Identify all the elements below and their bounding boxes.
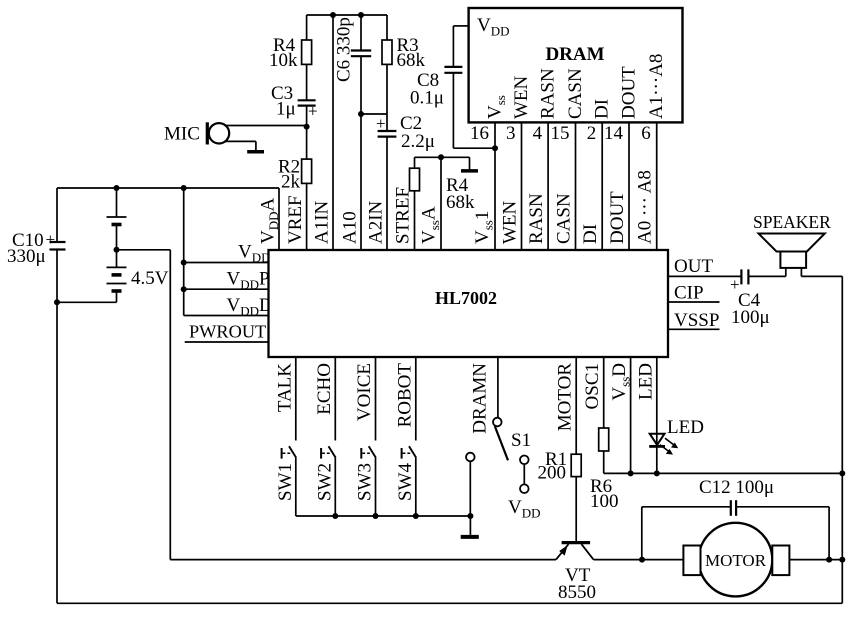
svg-text:SW4: SW4: [395, 463, 416, 502]
svg-text:A0 ··· A8: A0 ··· A8: [635, 170, 656, 244]
svg-text:CIP: CIP: [674, 283, 704, 304]
wire PWROUT pin: [185, 322, 269, 343]
wire A1IN pin: [312, 15, 334, 250]
wire switch common rail: [296, 515, 471, 517]
LED light arrows: [660, 438, 678, 454]
wire bottom rail: [57, 602, 842, 604]
junction MIC-VREF: [304, 124, 310, 130]
wire WEN net: [500, 122, 522, 250]
svg-text:SPEAKER: SPEAKER: [753, 212, 831, 232]
wire MIC to VREF: [226, 125, 307, 127]
capacitor C10: [7, 188, 66, 302]
switch SW2 on ECHO pin: [314, 357, 336, 516]
node VREF / resistor chain top wire: [307, 14, 387, 16]
resistor R3 68k: [382, 15, 426, 71]
svg-text:SW1: SW1: [275, 463, 296, 501]
junction collector-C12: [639, 557, 645, 563]
wire A10 label: [340, 211, 361, 244]
svg-text:+: +: [376, 114, 386, 133]
microphone MIC: [164, 122, 229, 144]
DRAM pin 6: [641, 54, 667, 144]
wire DOUT net: [607, 122, 629, 250]
svg-text:68k: 68k: [446, 192, 475, 213]
wire R6 rail: [604, 472, 843, 474]
svg-text:68k: 68k: [397, 50, 426, 71]
DRAM pin 4: [533, 68, 559, 144]
resistor R1 200: [538, 449, 582, 541]
switch SW1 on TALK pin: [274, 357, 296, 516]
junction VSSD rail: [628, 470, 634, 476]
svg-text:C6 330p: C6 330p: [334, 17, 355, 82]
ground stub near VSSA: [461, 157, 478, 171]
svg-text:C12 100μ: C12 100μ: [699, 477, 774, 498]
wire C4 to speaker: [748, 275, 785, 277]
resistor R2 2k: [278, 127, 312, 250]
svg-text:LED: LED: [636, 363, 657, 400]
svg-text:MOTOR: MOTOR: [555, 363, 576, 432]
svg-text:HL7002: HL7002: [435, 288, 497, 308]
wire collector to motor: [594, 559, 684, 561]
DRAM pin 3: [506, 75, 532, 144]
svg-text:16: 16: [470, 123, 489, 144]
wire OUT pin: [668, 256, 741, 277]
svg-text:SW2: SW2: [314, 463, 335, 501]
svg-text:STREF: STREF: [393, 187, 414, 244]
DRAM pin 14: [604, 66, 640, 144]
svg-text:RASN: RASN: [526, 193, 547, 244]
svg-text:OUT: OUT: [674, 256, 713, 277]
DRAM pin 15: [551, 68, 587, 144]
wire STREF-VSSA: [415, 156, 470, 158]
wire A2IN label: [366, 200, 387, 244]
svg-text:330μ: 330μ: [7, 246, 46, 267]
junction LED rail: [654, 470, 660, 476]
wire top-left VDD rail: [57, 187, 279, 189]
node test terminal: [466, 453, 475, 516]
svg-text:8550: 8550: [558, 582, 596, 603]
wire VDDA pin: [258, 188, 282, 250]
wire VSSD pin: [609, 357, 633, 473]
wire A0-A8 net: [635, 122, 657, 250]
switch SW4 on ROBOT pin: [394, 357, 416, 516]
capacitor C4 100u: [730, 269, 770, 328]
DRAM pin 2: [587, 99, 613, 144]
svg-text:RASN: RASN: [538, 68, 559, 119]
svg-text:DRAM: DRAM: [545, 44, 604, 65]
battery GB1 4.5V: [57, 188, 169, 302]
svg-text:MIC: MIC: [164, 124, 200, 145]
wire speaker to right rail: [801, 275, 842, 277]
svg-text:0.1μ: 0.1μ: [410, 88, 444, 109]
wire A10 to C2: [361, 113, 387, 115]
svg-text:+: +: [46, 230, 56, 249]
svg-text:DI: DI: [580, 224, 601, 244]
wire MOTOR pin: [555, 357, 577, 454]
junction rail-ground: [467, 513, 473, 519]
junction VDD: [181, 260, 187, 266]
svg-text:2: 2: [587, 123, 597, 144]
svg-text:4.5V: 4.5V: [131, 268, 169, 289]
svg-text:TALK: TALK: [274, 363, 295, 412]
junction VDDP: [181, 286, 187, 292]
capacitor C8 0.1u: [410, 26, 495, 148]
svg-text:+: +: [308, 102, 318, 121]
wire left outer rail: [56, 302, 58, 603]
svg-text:200: 200: [538, 463, 567, 484]
svg-text:14: 14: [604, 123, 624, 144]
svg-text:S1: S1: [511, 430, 531, 451]
wire DRAMN pin: [470, 357, 498, 434]
transistor VT 8550: [556, 543, 596, 603]
capacitor C3 1u: [271, 64, 318, 126]
motor M1: [683, 523, 789, 597]
svg-text:ROBOT: ROBOT: [394, 363, 415, 428]
svg-text:MOTOR: MOTOR: [705, 551, 767, 570]
wire RASN net: [526, 122, 548, 250]
junction battery mid tap: [114, 247, 120, 253]
junction rail-right: [839, 470, 845, 476]
wire OSC1 pin: [582, 357, 604, 428]
wire VREF label: [285, 195, 306, 244]
svg-text:DRAMN: DRAMN: [470, 363, 491, 434]
wire CIP pin: [668, 283, 720, 304]
wire right rail: [841, 276, 843, 603]
wire VDDD pin: [184, 295, 273, 319]
resistor R4 10k: [269, 15, 312, 71]
wire DI net: [580, 122, 602, 250]
svg-text:3: 3: [506, 123, 516, 144]
capacitor C2 2.2u: [376, 64, 435, 250]
svg-text:VOICE: VOICE: [354, 363, 375, 421]
ground MIC: [247, 150, 264, 154]
wire battery tap to emitter rail: [117, 250, 171, 560]
svg-text:WEN: WEN: [511, 75, 532, 119]
svg-text:A1IN: A1IN: [312, 200, 333, 244]
junction switch rail: [332, 513, 338, 519]
svg-text:PWROUT: PWROUT: [189, 322, 266, 342]
wire VDD pin: [184, 242, 271, 266]
svg-text:DOUT: DOUT: [607, 191, 628, 244]
svg-text:A10: A10: [340, 211, 361, 244]
wire VSSA pin: [419, 157, 443, 250]
svg-text:DI: DI: [592, 99, 613, 119]
svg-text:A2IN: A2IN: [366, 200, 387, 244]
switch S1: [493, 418, 541, 521]
svg-text:15: 15: [551, 123, 570, 144]
junction A10-C2 link: [358, 111, 364, 117]
svg-text:100μ: 100μ: [731, 307, 770, 328]
switch SW3 on VOICE pin: [354, 357, 376, 516]
svg-text:6: 6: [641, 123, 651, 144]
svg-text:SW3: SW3: [355, 463, 376, 501]
wire VSS1 pin: [472, 122, 496, 250]
junction VDD branch top: [181, 185, 187, 191]
LED diode: [636, 357, 704, 473]
op-amp U1 HL7002 body: [269, 250, 669, 357]
junction C12-right: [826, 557, 832, 563]
svg-text:1μ: 1μ: [276, 99, 296, 120]
junction C10 bottom: [54, 299, 60, 305]
svg-text:CASN: CASN: [565, 68, 586, 119]
resistor R6 100: [590, 428, 619, 512]
svg-text:VSSP: VSSP: [674, 310, 719, 331]
svg-text:100: 100: [590, 491, 619, 512]
junction switch rail: [413, 513, 419, 519]
junction A10 top: [358, 12, 364, 18]
wire VSSP pin: [668, 310, 720, 331]
svg-text:LED: LED: [667, 417, 704, 438]
svg-text:ECHO: ECHO: [314, 363, 335, 415]
DRAM body: [469, 8, 683, 122]
junction motor-right-rail: [839, 557, 845, 563]
svg-text:2k: 2k: [281, 172, 301, 193]
svg-text:OSC1: OSC1: [582, 363, 603, 409]
capacitor C6 330p on A10 pin: [334, 15, 372, 250]
wire VDD branch: [183, 188, 185, 316]
DRAM pin 16: [470, 95, 508, 144]
ground switch rail: [461, 516, 479, 537]
svg-text:VREF: VREF: [285, 195, 306, 244]
wire VDDP pin: [184, 269, 270, 293]
svg-text:CASN: CASN: [554, 193, 575, 244]
wire STREF label: [393, 187, 414, 244]
junction VSS1-C8: [492, 145, 498, 151]
speaker SPEAKER: [753, 212, 831, 276]
svg-text:DOUT: DOUT: [619, 66, 640, 119]
junction VSSA: [438, 154, 444, 160]
svg-text:WEN: WEN: [500, 200, 521, 244]
junction A1IN top: [330, 12, 336, 18]
svg-text:2.2μ: 2.2μ: [401, 131, 435, 152]
svg-text:4: 4: [533, 123, 543, 144]
junction switch rail: [373, 513, 379, 519]
capacitor C12 100u: [642, 477, 829, 560]
resistor R4 68k on STREF pin: [410, 157, 476, 250]
junction battery top: [114, 185, 120, 191]
wire motor right: [789, 559, 842, 561]
svg-text:10k: 10k: [269, 50, 298, 71]
svg-text:A1···A8: A1···A8: [646, 54, 667, 119]
wire CASN net: [554, 122, 576, 250]
wire emitter rail: [170, 559, 556, 561]
wire MIC ground stub: [225, 141, 256, 150]
